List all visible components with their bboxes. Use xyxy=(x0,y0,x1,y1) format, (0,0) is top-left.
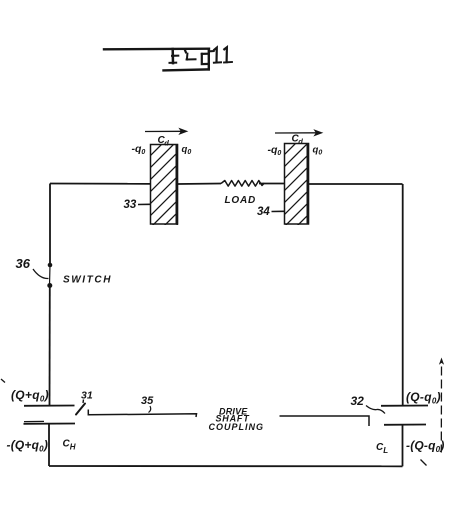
svg-text:q0: q0 xyxy=(313,144,323,156)
capacitor CH top plate xyxy=(24,405,75,407)
capacitor CL bottom plate xyxy=(384,424,426,426)
svg-text:CH: CH xyxy=(63,439,76,452)
capacitor CL top plate xyxy=(381,405,428,407)
switch contact node (upper) xyxy=(48,263,53,268)
capacitor C33 hatched dielectric block xyxy=(138,122,184,264)
svg-text:SWITCH: SWITCH xyxy=(63,274,112,285)
small tick at left margin xyxy=(1,379,5,383)
svg-text:Cd: Cd xyxy=(158,135,170,148)
svg-text:35: 35 xyxy=(141,395,154,407)
svg-text:COUPLING: COUPLING xyxy=(209,422,265,432)
svg-text:Cd: Cd xyxy=(292,133,304,146)
wire: left vertical bottom stub xyxy=(48,424,50,466)
small tick below CL xyxy=(421,460,427,466)
wire: top-right horizontal segment xyxy=(309,183,403,185)
figure title Fig-11 xyxy=(104,47,232,70)
switch blade segment xyxy=(49,265,52,286)
drive shaft right L-wire xyxy=(280,416,370,426)
svg-text:(Q+q0): (Q+q0) xyxy=(11,388,49,404)
drive shaft left L-wire xyxy=(88,410,196,418)
svg-text:CL: CL xyxy=(376,442,388,455)
wire: top segment between C33 and load xyxy=(178,183,221,186)
arrow over C33 xyxy=(145,129,187,134)
svg-text:q0: q0 xyxy=(182,144,192,156)
svg-text:LOAD: LOAD xyxy=(225,195,257,206)
svg-text:-q0: -q0 xyxy=(268,144,282,157)
svg-text:32: 32 xyxy=(351,394,365,408)
svg-text:33: 33 xyxy=(124,199,137,211)
wire: top segment between load and C34 xyxy=(259,183,284,185)
svg-text:34: 34 xyxy=(257,206,270,218)
capacitor CH bottom plate xyxy=(24,423,76,425)
capacitor C34 hatched dielectric block xyxy=(272,121,318,263)
wire: left vertical lower segment xyxy=(49,286,51,406)
svg-text:(Q-q0): (Q-q0) xyxy=(406,390,441,406)
wire: right vertical lower segment xyxy=(402,425,404,467)
dashed reference line with up arrow (right margin) xyxy=(440,367,442,453)
arrow over C34 xyxy=(275,130,322,135)
wire: right vertical upper segment xyxy=(402,184,404,406)
wire: bottom horizontal xyxy=(49,465,403,467)
wire: top-left horizontal segment xyxy=(50,183,150,185)
svg-text:36: 36 xyxy=(16,256,31,271)
svg-text:-(Q-q0): -(Q-q0) xyxy=(406,438,445,454)
switch contact node (lower) xyxy=(47,283,52,288)
wire: left vertical upper segment xyxy=(49,184,51,266)
resistor LOAD squiggle xyxy=(221,181,264,187)
svg-text:-q0: -q0 xyxy=(132,143,146,156)
svg-text:-(Q+q0): -(Q+q0) xyxy=(7,438,49,454)
